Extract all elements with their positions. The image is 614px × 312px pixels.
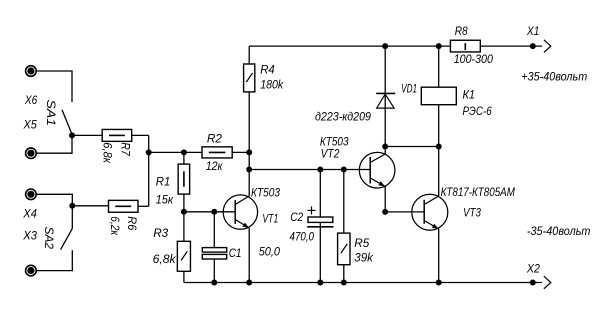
svg-text:R5: R5 [354, 236, 369, 250]
svg-text:VD1: VD1 [401, 82, 417, 96]
svg-text:R2: R2 [207, 131, 222, 145]
svg-text:X1: X1 [526, 24, 539, 38]
svg-text:R7: R7 [119, 142, 133, 157]
svg-text:+35-40вольт: +35-40вольт [521, 69, 587, 83]
svg-text:15к: 15к [156, 193, 175, 207]
svg-text:C1: C1 [229, 246, 242, 260]
svg-text:39k: 39k [354, 251, 374, 265]
svg-text:R6: R6 [125, 216, 139, 230]
svg-text:РЭС-6: РЭС-6 [463, 104, 492, 118]
svg-text:6,8к: 6,8к [101, 142, 115, 164]
svg-text:6,8k: 6,8k [153, 252, 177, 266]
svg-text:VT2: VT2 [321, 146, 340, 160]
svg-text:КТ503: КТ503 [251, 186, 280, 200]
svg-text:50,0: 50,0 [259, 245, 281, 259]
svg-text:12к: 12к [206, 159, 224, 173]
svg-text:6,2к: 6,2к [108, 216, 122, 236]
svg-text:X6: X6 [24, 93, 38, 107]
svg-text:X5: X5 [23, 118, 38, 132]
svg-text:C2: C2 [290, 210, 303, 224]
svg-text:X3: X3 [22, 229, 37, 243]
svg-text:X2: X2 [526, 262, 540, 276]
svg-text:VT3: VT3 [463, 205, 481, 219]
svg-text:R3: R3 [153, 226, 168, 240]
svg-text:-35-40вольт: -35-40вольт [527, 224, 591, 238]
svg-text:К1: К1 [463, 88, 476, 102]
svg-text:X4: X4 [22, 207, 37, 221]
svg-text:SA1: SA1 [44, 100, 58, 127]
svg-text:R1: R1 [156, 175, 171, 189]
svg-text:100-300: 100-300 [454, 52, 493, 66]
svg-text:470,0: 470,0 [290, 229, 315, 243]
svg-text:КТ817-КТ805АМ: КТ817-КТ805АМ [441, 185, 515, 199]
svg-text:R8: R8 [455, 24, 468, 38]
svg-text:R4: R4 [260, 63, 275, 77]
svg-text:д223-кд209: д223-кд209 [315, 110, 371, 124]
svg-text:SA2: SA2 [42, 227, 56, 250]
svg-text:180k: 180k [260, 77, 284, 91]
svg-text:VT1: VT1 [262, 211, 278, 225]
